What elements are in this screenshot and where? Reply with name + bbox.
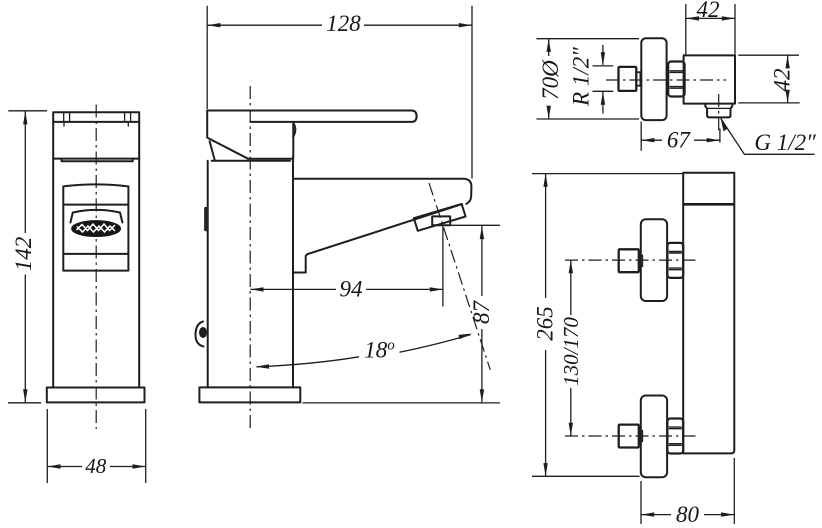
upper valve center line xyxy=(565,259,697,261)
dimension 48 xyxy=(47,409,145,483)
outlet fitting xyxy=(705,104,732,118)
pop-up rod hook xyxy=(195,322,207,347)
dimension 67 xyxy=(641,122,720,153)
dimension 94 xyxy=(250,277,443,302)
spout xyxy=(293,179,471,273)
outlet center line xyxy=(718,94,720,131)
svg-text:70Ø: 70Ø xyxy=(538,59,563,100)
aerator cup xyxy=(70,210,122,223)
svg-text:67: 67 xyxy=(667,128,692,153)
svg-text:142: 142 xyxy=(11,237,36,272)
lower knob stem xyxy=(639,431,643,442)
dimension 80 xyxy=(641,458,734,527)
wall bar xyxy=(683,173,734,454)
upper knob xyxy=(619,249,639,272)
dimension R 1/2 xyxy=(569,45,614,114)
svg-text:R 1/2″: R 1/2″ xyxy=(569,47,594,107)
dimension 42 top xyxy=(686,0,735,55)
svg-text:265: 265 xyxy=(533,306,558,341)
flange disc xyxy=(641,38,666,120)
svg-text:48: 48 xyxy=(85,454,107,478)
base plate front xyxy=(47,388,145,403)
front view center line xyxy=(95,105,97,430)
leader G 1/2 xyxy=(721,118,816,155)
svg-text:128: 128 xyxy=(326,11,361,36)
extension line aerator xyxy=(443,225,500,306)
lever handle xyxy=(207,111,416,160)
upper flange disc xyxy=(641,219,667,301)
upper hex nut xyxy=(667,243,683,278)
inner panel xyxy=(63,184,128,270)
dimension 87 xyxy=(469,226,494,403)
knob xyxy=(619,67,637,91)
svg-text:130/170: 130/170 xyxy=(559,317,583,386)
lower flange disc xyxy=(641,396,667,478)
svg-text:87: 87 xyxy=(469,300,494,325)
collar line xyxy=(62,159,133,162)
lower knob xyxy=(619,425,639,448)
mounting surface line xyxy=(303,402,500,404)
body sides xyxy=(53,159,139,388)
side view center line xyxy=(249,86,251,429)
lower valve center line xyxy=(565,435,697,437)
base plate side xyxy=(199,387,300,402)
dimension 130/170 xyxy=(559,260,583,436)
mixer center line xyxy=(606,79,726,81)
dimension 142 xyxy=(8,111,47,403)
aerator ellipse xyxy=(72,221,120,236)
svg-text:G 1/2″: G 1/2″ xyxy=(754,130,816,155)
svg-text:94: 94 xyxy=(340,277,363,302)
knob stem xyxy=(636,72,640,86)
lower hex nut xyxy=(667,419,683,454)
upper knob stem xyxy=(639,255,643,266)
side body xyxy=(208,157,293,388)
hex nut xyxy=(668,62,684,97)
svg-text:42: 42 xyxy=(770,69,795,92)
svg-text:80: 80 xyxy=(676,502,700,527)
dimension 42 right xyxy=(738,55,799,103)
temperature tab xyxy=(204,207,208,231)
handle ticks xyxy=(64,112,131,126)
handle block xyxy=(53,112,139,158)
dimension 70 dia xyxy=(537,39,640,119)
svg-text:42: 42 xyxy=(697,0,720,22)
dimension 128 xyxy=(207,6,472,179)
aerator housing xyxy=(414,204,466,231)
spout axis tilted center line xyxy=(429,183,490,370)
dimension 265 xyxy=(532,174,683,477)
valve body xyxy=(684,55,735,103)
angle dimension 18 deg xyxy=(256,334,472,369)
